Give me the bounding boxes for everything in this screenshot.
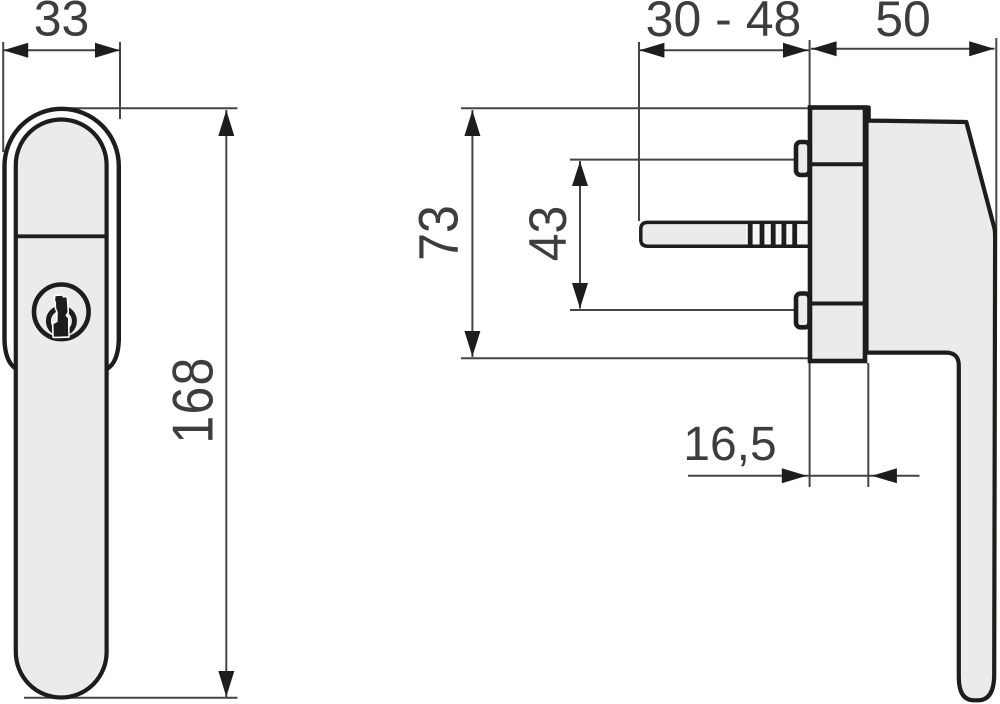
- svg-text:33: 33: [34, 0, 90, 47]
- side view: spindle serration bars: [750, 222, 795, 246]
- dimension 50: dimension line: [811, 48, 995, 50]
- front view: keyhole silhouette: [54, 296, 69, 337]
- side view: rosette plate: [810, 108, 865, 362]
- dimension 16,5: right arrow: [872, 468, 897, 483]
- dimension 33: dimension line: [3, 49, 120, 51]
- front view: handle base outline: [5, 109, 119, 369]
- dimension 43: top extension line: [570, 159, 794, 161]
- dimension 43: top arrow: [572, 161, 588, 186]
- svg-text:73: 73: [408, 205, 470, 261]
- dimension 168: top extension line: [58, 107, 238, 109]
- dimension 168: dimension line: [225, 110, 227, 697]
- side view: plate joint line upper: [810, 162, 865, 166]
- svg-text:168: 168: [161, 356, 225, 443]
- side view: spindle serrated section background: [746, 224, 810, 244]
- dimension 30-48: dimension line: [639, 49, 809, 51]
- dimension 73: dimension line: [471, 110, 473, 357]
- dimension 43: bottom extension line: [570, 309, 794, 311]
- dimension 168: top arrow: [218, 110, 234, 136]
- dimension 30-48: right arrow: [783, 43, 808, 58]
- svg-text:16,5: 16,5: [683, 418, 776, 471]
- front view: key cylinder outer ring: [34, 285, 89, 340]
- dimension 30-48: left extension line: [638, 42, 640, 221]
- dimension 33: right arrow: [95, 43, 120, 58]
- dimension 50: left arrow: [812, 41, 837, 56]
- dimension 73: bottom extension line: [461, 357, 808, 359]
- dimension 33: left extension line: [2, 42, 4, 152]
- shared extension line at plate front: [809, 40, 811, 487]
- svg-text:50: 50: [875, 0, 931, 47]
- side view: handle body: [867, 108, 996, 701]
- svg-text:43: 43: [518, 206, 578, 262]
- dimension 30-48: left arrow: [639, 43, 664, 58]
- dimension 50: right arrow: [969, 41, 994, 56]
- dimension 43: dimension line: [579, 161, 581, 309]
- dimension 33: left arrow: [3, 43, 28, 58]
- side view: spindle: [641, 222, 812, 246]
- dimension 73: top extension line: [461, 107, 808, 109]
- dimension 43: bottom arrow: [572, 283, 588, 309]
- side view: upper screw head: [796, 142, 810, 175]
- dimension 33: right extension line: [119, 42, 121, 119]
- dimension 73: top arrow: [464, 110, 480, 136]
- dimension 50: right extension line: [995, 38, 997, 233]
- dimension 16,5: dimension line: [688, 475, 920, 477]
- dimension 168: bottom extension line: [24, 697, 238, 699]
- svg-text:30 - 48: 30 - 48: [646, 0, 802, 47]
- dimension 168: bottom arrow: [218, 671, 234, 697]
- side view: plate joint line lower: [810, 302, 865, 306]
- dimension 73: bottom arrow: [464, 331, 480, 357]
- side view: lower screw head: [796, 294, 810, 328]
- dimension 16,5: left arrow: [782, 468, 807, 483]
- dimension 16,5: right extension line: [867, 363, 869, 487]
- front view: grip divider line: [16, 234, 107, 238]
- front view: key cylinder inner ring: [48, 308, 74, 334]
- front view: grip outline: [16, 120, 107, 698]
